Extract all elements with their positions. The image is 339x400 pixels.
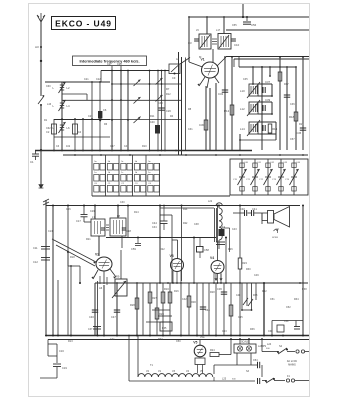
capacitor C32 [218, 90, 228, 96]
svg-text:R17: R17 [284, 83, 289, 86]
svg-text:R24: R24 [183, 208, 188, 211]
capacitor C39 [263, 98, 271, 111]
valve V5 rectifier [193, 339, 206, 357]
capacitor stub C27 [107, 63, 112, 71]
wire [86, 94, 88, 101]
svg-text:L24: L24 [267, 343, 272, 346]
junction dots [74, 154, 304, 156]
capacitor C3 [188, 39, 240, 47]
gang capacitor sections [233, 159, 301, 195]
wire rail [185, 58, 187, 151]
wire [149, 283, 151, 336]
resistor R28 [155, 308, 164, 319]
svg-text:A6: A6 [99, 286, 103, 290]
node A3 [35, 45, 42, 49]
wire [108, 119, 181, 121]
svg-text:102: 102 [66, 145, 71, 148]
svg-text:L12: L12 [240, 107, 245, 111]
volume control wires [52, 239, 96, 266]
svg-text:C36: C36 [217, 287, 222, 291]
wire [258, 102, 272, 114]
wire heavy rail [263, 282, 265, 336]
wire [261, 365, 263, 377]
transformer T2 secondary [218, 34, 231, 50]
switch S4 [261, 338, 295, 354]
wire mains bus [46, 335, 309, 337]
wire [205, 86, 207, 150]
svg-text:V2: V2 [95, 253, 99, 257]
capacitor C13 [33, 258, 50, 265]
wire [98, 236, 100, 256]
svg-text:L22: L22 [208, 200, 213, 203]
wire [40, 150, 42, 184]
wire [127, 205, 129, 238]
wire [94, 205, 96, 220]
svg-text:C30: C30 [199, 123, 205, 127]
wire [252, 67, 254, 84]
resistor R31 [229, 305, 233, 316]
svg-text:L14: L14 [240, 127, 245, 131]
transformer T3 core [106, 225, 109, 230]
switch bank S2 contacts [94, 164, 159, 193]
wire [62, 93, 87, 95]
switch S1 [38, 95, 45, 106]
wire [62, 99, 181, 101]
wire [82, 119, 84, 150]
capacitor C54 [253, 359, 260, 368]
wire [97, 281, 99, 336]
wire bus [95, 282, 308, 284]
valve V2 cathode ticks [99, 276, 107, 290]
valve V2 pins [91, 269, 116, 282]
wire [231, 56, 233, 150]
switch contact [156, 95, 163, 102]
svg-text:C16: C16 [59, 349, 64, 353]
wire rail [188, 17, 190, 62]
svg-text:R13: R13 [68, 340, 73, 343]
svg-text:V3: V3 [170, 254, 174, 258]
svg-text:R12: R12 [166, 93, 171, 96]
coil L4 [53, 100, 71, 111]
svg-text:R14: R14 [134, 211, 139, 214]
svg-text:C12: C12 [33, 260, 38, 264]
svg-text:C55: C55 [232, 24, 237, 27]
svg-text:C42: C42 [182, 298, 187, 301]
svg-text:C39: C39 [265, 98, 271, 102]
capacitor C11 [33, 246, 50, 250]
capacitor C18 [101, 228, 132, 233]
switch contact [156, 78, 170, 91]
wire [94, 283, 96, 336]
svg-text:R32: R32 [262, 290, 267, 293]
junction dots [99, 83, 162, 121]
capacitor C45 [296, 128, 306, 135]
svg-text:R26: R26 [130, 303, 135, 307]
svg-text:C54: C54 [253, 359, 258, 362]
svg-text:V5: V5 [193, 341, 197, 345]
svg-text:C60: C60 [268, 330, 273, 333]
capacitor C30 [199, 120, 208, 130]
wire [116, 283, 118, 336]
svg-text:L6: L6 [67, 126, 71, 130]
wire mains bus 2 [48, 339, 309, 341]
svg-text:C37: C37 [88, 328, 93, 331]
junction dots [40, 150, 177, 152]
wire [120, 71, 122, 151]
wire [258, 84, 272, 96]
wire left rail [45, 206, 47, 336]
junction dots [111, 70, 166, 72]
wire [106, 237, 216, 239]
capacitor C43 [284, 95, 290, 97]
wire [286, 67, 288, 150]
svg-text:C28: C28 [117, 63, 122, 66]
coil L14 [240, 120, 260, 136]
svg-text:R21: R21 [86, 238, 91, 241]
svg-text:R14: R14 [272, 127, 278, 131]
junction [40, 60, 42, 62]
svg-text:C41: C41 [110, 338, 115, 341]
wire [120, 250, 122, 279]
svg-text:R23: R23 [242, 261, 247, 265]
svg-text:R11: R11 [150, 115, 155, 118]
wire [157, 71, 159, 151]
wire rail [52, 205, 54, 336]
ground arrow [39, 184, 44, 188]
resistor R27 [148, 292, 157, 303]
capacitor C26 [158, 108, 171, 113]
wire stub [242, 4, 244, 18]
valve V4 output [210, 256, 224, 274]
wire bus [35, 150, 252, 152]
capacitor C55 [255, 377, 260, 384]
svg-text:R7: R7 [166, 87, 170, 91]
svg-text:C58: C58 [284, 320, 289, 323]
wire [45, 81, 110, 83]
coil L10 [240, 82, 260, 98]
wire [67, 205, 81, 285]
svg-text:EKCO - U49: EKCO - U49 [55, 18, 112, 28]
svg-text:C59: C59 [131, 247, 136, 251]
svg-text:L25: L25 [222, 378, 227, 381]
wire rail [181, 57, 183, 155]
wire [209, 88, 211, 150]
wire [127, 71, 129, 151]
wire [128, 335, 130, 381]
capacitor C19 [53, 356, 67, 378]
svg-text:R22: R22 [183, 222, 188, 225]
resistor R30 [187, 296, 196, 307]
wire [160, 215, 172, 283]
svg-text:C31: C31 [188, 128, 193, 131]
wire [172, 240, 178, 259]
svg-text:C49: C49 [254, 274, 259, 277]
wire [196, 283, 198, 336]
svg-text:C33: C33 [158, 102, 163, 105]
wire [117, 205, 119, 219]
resistor R29 [161, 292, 165, 303]
wire AVC line [226, 56, 309, 58]
junction dots [252, 66, 297, 68]
wire [112, 83, 181, 85]
svg-text:R19: R19 [299, 123, 304, 126]
wire [180, 283, 182, 336]
wire [242, 283, 256, 310]
wire [91, 81, 93, 150]
svg-text:C45: C45 [296, 131, 302, 135]
svg-text:C1: C1 [30, 160, 34, 164]
wire [188, 283, 190, 336]
wire [40, 106, 42, 150]
wire [159, 205, 161, 284]
wire [92, 195, 230, 197]
resistor R18 [289, 112, 298, 121]
title box EKCO - U49 [52, 17, 116, 30]
wire tie [146, 321, 172, 323]
valve V3 pins [173, 271, 181, 283]
label box intermediate frequency 460 kc/s [73, 56, 147, 66]
wire [230, 283, 232, 336]
tone net [268, 320, 303, 336]
wire [258, 122, 276, 134]
switch bank S2 wires [92, 155, 160, 196]
wire HT line [188, 16, 309, 18]
wire [57, 280, 59, 336]
svg-text:SPKR: SPKR [272, 237, 278, 239]
switch contact [134, 97, 141, 104]
svg-text:C32: C32 [218, 92, 224, 96]
heater winding [138, 374, 213, 377]
transformer T4 [215, 208, 226, 242]
wire antenna lead [40, 22, 42, 61]
resistor R23 [238, 205, 247, 284]
svg-text:L10: L10 [240, 89, 245, 93]
svg-text:C58: C58 [204, 248, 209, 252]
svg-text:R16: R16 [174, 290, 179, 293]
wire tie [241, 309, 252, 311]
coil L6 [53, 122, 71, 133]
wire [271, 84, 273, 96]
transformer T3 secondary [110, 214, 126, 236]
svg-text:R30: R30 [191, 300, 196, 304]
svg-text:C6: C6 [103, 108, 107, 112]
transformer T2 primary [199, 34, 211, 49]
switch bank labels [94, 161, 152, 185]
wire bus [239, 57, 296, 67]
svg-text:C35: C35 [243, 78, 248, 81]
wire [202, 283, 204, 336]
capacitor C59 [131, 237, 141, 252]
svg-text:C40: C40 [150, 121, 155, 124]
svg-text:C13: C13 [48, 230, 53, 233]
wire anode lead [217, 57, 226, 66]
wire tie [158, 315, 172, 317]
svg-text:C30: C30 [120, 201, 125, 204]
svg-text:C50: C50 [176, 340, 181, 343]
svg-text:C53: C53 [222, 330, 227, 333]
svg-text:R28: R28 [159, 312, 164, 316]
heater labels [146, 370, 204, 373]
capacitor C6 [103, 108, 107, 112]
svg-text:C11: C11 [33, 246, 38, 250]
svg-text:C45: C45 [124, 145, 129, 148]
wire [224, 56, 226, 150]
svg-text:V5a: V5a [200, 336, 205, 339]
wire [74, 119, 76, 150]
loudspeaker LS [262, 207, 290, 228]
svg-text:C44: C44 [152, 221, 157, 225]
svg-text:C47: C47 [110, 145, 115, 148]
svg-text:C46: C46 [89, 315, 94, 319]
wire [137, 336, 139, 378]
svg-text:C45: C45 [238, 316, 243, 319]
wire [129, 380, 255, 382]
wire [206, 17, 208, 34]
svg-text:R26: R26 [228, 248, 233, 251]
svg-text:C56: C56 [251, 23, 257, 27]
transformer core [212, 39, 217, 44]
capacitor stub C28 [117, 63, 122, 71]
wire right rail [302, 205, 304, 336]
svg-text:L2: L2 [67, 86, 71, 90]
wire [302, 56, 304, 150]
svg-text:R22: R22 [160, 248, 165, 251]
svg-text:C25: C25 [88, 115, 93, 118]
wire [240, 122, 276, 140]
svg-text:R34: R34 [294, 298, 299, 301]
fuse F1 [286, 375, 309, 382]
resistor R14 [268, 124, 277, 133]
wire [239, 338, 250, 344]
ballast L25 [214, 377, 236, 381]
wire [156, 283, 158, 336]
component value labels [44, 24, 307, 373]
junction dots [45, 335, 304, 337]
svg-text:R12: R12 [224, 109, 230, 113]
wire [40, 377, 57, 379]
svg-text:C36: C36 [290, 103, 295, 106]
svg-text:A3: A3 [35, 45, 39, 49]
wire [239, 283, 241, 336]
valve V1 pins [197, 76, 219, 88]
svg-text:C62: C62 [46, 127, 51, 130]
svg-text:MAINS: MAINS [288, 364, 296, 367]
svg-text:R28: R28 [210, 291, 215, 294]
wire [70, 266, 72, 336]
wire bus [63, 154, 308, 156]
wire tie [54, 136, 110, 138]
svg-text:R24: R24 [210, 349, 215, 352]
wire [169, 283, 171, 336]
svg-text:R38: R38 [302, 288, 307, 291]
svg-text:C17: C17 [76, 219, 81, 223]
coil L12 [240, 100, 260, 116]
svg-text:C56: C56 [66, 208, 71, 211]
junction dots [103, 282, 301, 284]
wire [279, 56, 281, 150]
capacitor C4 [73, 124, 82, 134]
svg-text:C38: C38 [194, 223, 199, 226]
switch contact [134, 80, 141, 87]
wire [136, 283, 138, 336]
switch contact [134, 117, 141, 124]
wire [269, 67, 271, 77]
wire bus [101, 70, 169, 72]
gang capacitor frame [230, 159, 308, 195]
svg-text:L43: L43 [47, 103, 52, 106]
wire [215, 283, 217, 336]
wire [261, 67, 263, 150]
wire [223, 283, 225, 336]
resistor R24 [208, 349, 231, 357]
capacitor C47 [111, 310, 120, 319]
antenna A1 [37, 13, 45, 22]
switch S6 contacts [236, 294, 258, 306]
scale lamps box [234, 341, 267, 354]
wire tie [152, 309, 170, 311]
valve V2 double-diode-triode [95, 253, 112, 272]
wire [103, 285, 105, 336]
wire [193, 237, 195, 284]
svg-text:C41: C41 [252, 207, 257, 211]
transformer T4 winding [216, 203, 222, 246]
wire HT line 2 [226, 29, 309, 31]
svg-text:R18: R18 [70, 256, 75, 259]
wire [111, 71, 113, 151]
capacitor C56 [243, 16, 257, 27]
svg-text:R33: R33 [253, 294, 258, 297]
capacitor C39b [216, 242, 225, 245]
wire [215, 83, 217, 150]
wire tie [54, 119, 110, 121]
svg-text:C52: C52 [286, 306, 291, 309]
svg-text:C22: C22 [96, 78, 101, 81]
wire [295, 67, 297, 150]
resistor R16 [278, 72, 282, 81]
wire screen line [234, 59, 309, 67]
svg-text:C2: C2 [46, 130, 50, 134]
valve V5 base [195, 358, 205, 373]
trimmer C14 [169, 58, 190, 81]
coil L2 [53, 82, 71, 93]
wire [271, 102, 273, 114]
svg-text:V4: V4 [210, 256, 214, 260]
capacitor C16 loop [48, 340, 64, 357]
svg-text:C9: C9 [172, 76, 176, 80]
resistor R12 [224, 105, 234, 115]
wire [181, 205, 189, 282]
resistor L24 [266, 343, 272, 350]
mains terminals [296, 350, 309, 353]
svg-text:SCALE: SCALE [241, 341, 249, 344]
svg-text:R18: R18 [289, 115, 295, 119]
junction dots [61, 118, 101, 120]
capacitor C40 [233, 207, 262, 216]
wire [149, 71, 151, 151]
svg-text:C37: C37 [265, 80, 271, 84]
svg-text:R35: R35 [162, 327, 167, 330]
svg-text:C10: C10 [234, 43, 240, 47]
svg-text:L4: L4 [67, 104, 71, 108]
wire [214, 353, 258, 374]
wire [225, 237, 227, 284]
wire [162, 283, 164, 336]
valve V4 pins [214, 273, 221, 283]
wire rail [178, 52, 180, 155]
junction [40, 149, 42, 151]
wire [218, 205, 220, 209]
wire [43, 199, 49, 206]
